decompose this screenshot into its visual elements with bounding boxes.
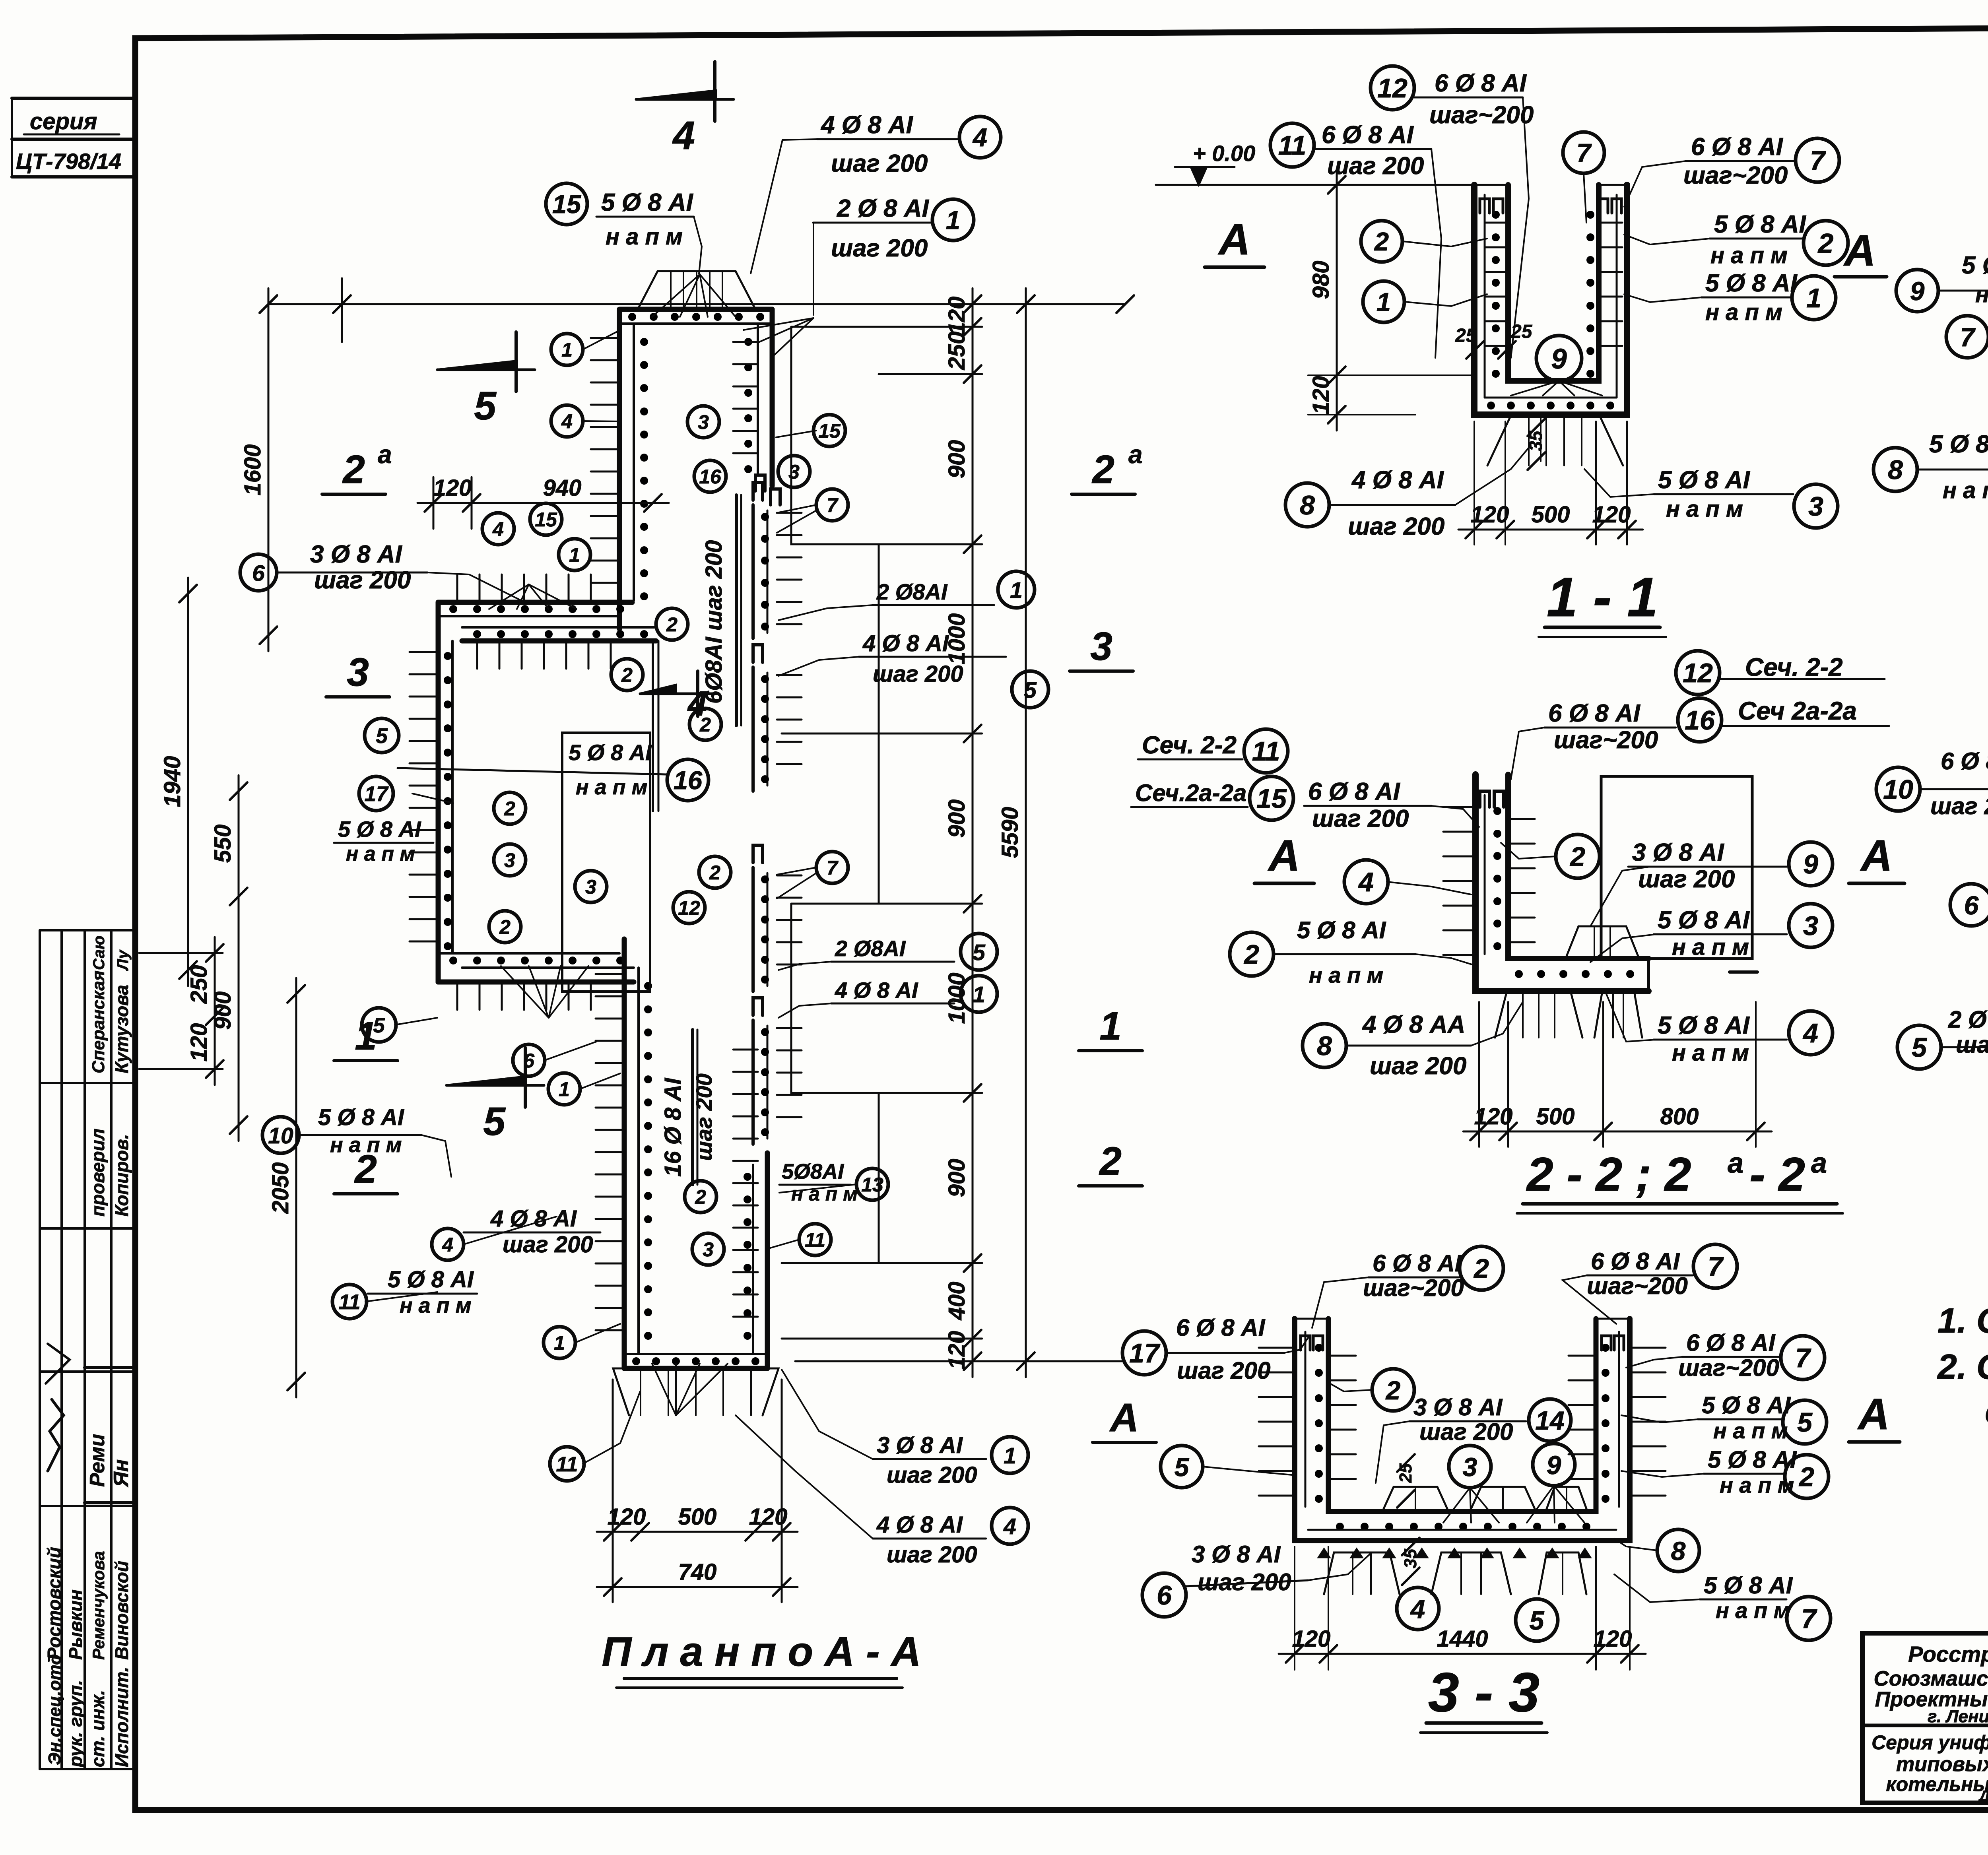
svg-text:шаг~200: шаг~200: [1363, 1275, 1464, 1301]
svg-text:4 Ø 8 АI: 4 Ø 8 АI: [820, 111, 914, 139]
svg-text:Рывкин: Рывкин: [65, 1589, 86, 1660]
svg-text:1 - 1: 1 - 1: [1547, 566, 1658, 628]
svg-text:120: 120: [1592, 502, 1631, 528]
svg-text:16: 16: [674, 766, 703, 795]
svg-text:500: 500: [1532, 502, 1570, 528]
svg-text:5 Ø 8 АI: 5 Ø 8 АI: [1962, 252, 1988, 279]
svg-text:Исполнит.: Исполнит.: [111, 1667, 132, 1767]
svg-text:7: 7: [1708, 1252, 1724, 1282]
svg-text:шаг~200: шаг~200: [1678, 1354, 1779, 1381]
svg-text:2: 2: [699, 714, 711, 736]
svg-text:11: 11: [1278, 130, 1307, 161]
svg-text:10: 10: [268, 1123, 293, 1149]
svg-text:н а п м: н а п м: [576, 775, 648, 799]
svg-text:120: 120: [1292, 1626, 1331, 1652]
svg-text:16 Ø 8 АI: 16 Ø 8 АI: [660, 1077, 686, 1177]
svg-text:шаг~200: шаг~200: [1429, 101, 1534, 129]
svg-text:9: 9: [1910, 276, 1925, 306]
svg-text:шаг 200: шаг 200: [1198, 1569, 1291, 1595]
svg-text:Сеч. 2-2: Сеч. 2-2: [1745, 653, 1843, 681]
svg-text:800: 800: [1660, 1104, 1699, 1129]
svg-text:10: 10: [1883, 774, 1913, 805]
svg-text:н а п м: н а п м: [1666, 496, 1743, 522]
svg-text:Копиров.: Копиров.: [111, 1134, 132, 1217]
svg-text:н а п м: н а п м: [346, 842, 415, 865]
svg-text:120: 120: [1474, 1104, 1513, 1129]
svg-text:5: 5: [474, 384, 497, 428]
svg-text:шаг 200: шаг 200: [503, 1232, 593, 1257]
svg-text:2: 2: [342, 447, 365, 492]
section 2-2;2a-2a: L-shaped wall and slab: [1475, 774, 1648, 991]
svg-text:шаг 200: шаг 200: [1327, 152, 1424, 180]
svg-text:400: 400: [944, 1282, 970, 1321]
svg-text:н а п м: н а п м: [1309, 962, 1383, 988]
svg-text:3 Ø 8 АI: 3 Ø 8 АI: [310, 541, 403, 568]
svg-text:6Ø8АI шаг 200: 6Ø8АI шаг 200: [701, 540, 727, 704]
svg-text:14: 14: [1535, 1406, 1564, 1435]
svg-text:1: 1: [1010, 578, 1023, 603]
svg-text:5 Ø 8 АI: 5 Ø 8 АI: [388, 1267, 474, 1292]
svg-text:шаг 200: шаг 200: [887, 1462, 977, 1488]
svg-text:5590: 5590: [997, 807, 1023, 858]
svg-text:2: 2: [1473, 1253, 1489, 1284]
svg-text:5 Ø 8 АI: 5 Ø 8 АI: [601, 189, 694, 216]
svg-text:250: 250: [186, 965, 212, 1004]
svg-text:3 Ø 8 АI: 3 Ø 8 АI: [1413, 1394, 1503, 1420]
svg-text:9: 9: [1547, 1450, 1561, 1480]
svg-text:3 Ø 8 АI: 3 Ø 8 АI: [877, 1432, 963, 1458]
svg-text:3: 3: [1463, 1452, 1477, 1482]
svg-text:7: 7: [1795, 1343, 1811, 1373]
svg-text:н а п м: н а п м: [1710, 243, 1788, 268]
svg-text:5: 5: [973, 940, 986, 965]
svg-text:11: 11: [1252, 736, 1280, 766]
svg-text:А: А: [1267, 831, 1300, 880]
svg-text:12: 12: [1683, 658, 1713, 688]
svg-text:25: 25: [1455, 325, 1477, 346]
svg-text:8: 8: [1300, 490, 1315, 520]
svg-text:н а п м: н а п м: [330, 1133, 402, 1157]
section 1-1: U-shaped foundation section: [1474, 185, 1627, 415]
svg-text:4 Ø 8 АI: 4 Ø 8 АI: [876, 1512, 963, 1538]
svg-text:5 Ø 8 АI: 5 Ø 8 АI: [1702, 1392, 1791, 1418]
svg-text:шаг 200: шаг 200: [691, 1073, 716, 1161]
svg-text:шаг~200: шаг~200: [1554, 726, 1658, 754]
svg-text:шаг 200: шаг 200: [831, 235, 928, 262]
svg-text:ЦТ-798/14: ЦТ-798/14: [16, 149, 121, 174]
svg-text:а: а: [1811, 1147, 1827, 1179]
svg-text:Росстрой СССР: Росстрой СССР: [1908, 1642, 1988, 1667]
svg-text:5: 5: [373, 1014, 385, 1037]
svg-text:7: 7: [1576, 138, 1592, 167]
svg-text:А: А: [1217, 215, 1250, 264]
svg-text:4 Ø 8 АI: 4 Ø 8 АI: [835, 978, 918, 1003]
svg-text:н а п м: н а п м: [1716, 1598, 1790, 1623]
svg-text:2: 2: [1569, 842, 1585, 872]
svg-text:2050: 2050: [268, 1162, 293, 1214]
svg-text:7: 7: [1810, 146, 1826, 176]
svg-text:шаг 200: шаг 200: [1638, 865, 1735, 893]
svg-text:котельных с котлами: котельных с котлами: [1886, 1773, 1988, 1795]
section cut marks 4 and 5: [636, 62, 734, 158]
svg-text:500: 500: [678, 1504, 717, 1530]
svg-text:1: 1: [1004, 1443, 1016, 1469]
svg-text:1: 1: [559, 1078, 570, 1100]
svg-text:6 Ø 8 АI: 6 Ø 8 АI: [1176, 1314, 1266, 1341]
svg-text:3: 3: [585, 876, 596, 898]
svg-text:120: 120: [433, 475, 472, 501]
svg-text:Сеч.2а-2а: Сеч.2а-2а: [1135, 780, 1246, 806]
svg-text:12: 12: [678, 897, 700, 919]
svg-text:7: 7: [1960, 322, 1976, 352]
svg-text:3: 3: [1090, 624, 1112, 669]
svg-text:шаг 200: шаг 200: [1419, 1418, 1513, 1445]
svg-text:2 Ø8АI: 2 Ø8АI: [835, 936, 906, 961]
svg-text:6: 6: [252, 561, 265, 586]
svg-text:8: 8: [1317, 1031, 1332, 1061]
svg-text:900: 900: [944, 440, 970, 479]
svg-text:4: 4: [492, 518, 504, 540]
svg-text:8: 8: [1888, 455, 1903, 485]
svg-text:3: 3: [347, 650, 369, 695]
svg-text:120: 120: [1471, 502, 1509, 528]
svg-text:120: 120: [1308, 376, 1334, 415]
svg-text:5: 5: [1175, 1452, 1190, 1482]
svg-text:6 Ø 8 АI: 6 Ø 8 АI: [1322, 121, 1414, 149]
svg-text:5 Ø 8 АI: 5 Ø 8 АI: [1714, 211, 1807, 238]
svg-text:серия: серия: [30, 109, 97, 134]
svg-text:550: 550: [210, 825, 236, 863]
svg-text:а: а: [1128, 440, 1143, 469]
plan view: План по А-А foundation strip walls: [619, 307, 772, 312]
svg-text:ст. инж.: ст. инж.: [87, 1690, 108, 1767]
svg-text:4: 4: [1410, 1594, 1425, 1624]
svg-text:типовых проектов: типовых проектов: [1896, 1753, 1988, 1776]
svg-text:1440: 1440: [1437, 1626, 1488, 1652]
svg-text:2 Ø 8 АI: 2 Ø 8 АI: [837, 195, 930, 222]
svg-text:шаг 200: шаг 200: [887, 1542, 977, 1568]
svg-text:шаг~200: шаг~200: [1683, 162, 1788, 189]
svg-text:шаг~200: шаг~200: [1587, 1273, 1688, 1299]
svg-text:2: 2: [1385, 1376, 1401, 1405]
svg-text:шаг 200: шаг 200: [1370, 1052, 1466, 1080]
svg-text:А: А: [1109, 1395, 1139, 1440]
svg-text:Ременчукова: Ременчукова: [89, 1551, 108, 1660]
svg-text:9: 9: [1551, 343, 1567, 375]
svg-text:3: 3: [1808, 491, 1823, 522]
svg-text:120: 120: [186, 1023, 212, 1062]
series label boxes (серия / ЦТ-798/14): [12, 97, 135, 100]
svg-text:9: 9: [1803, 849, 1818, 879]
svg-text:3: 3: [788, 461, 800, 483]
svg-text:шаг 200: шаг 200: [831, 150, 928, 177]
svg-text:2. Спецификацию арматуры: 2. Спецификацию арматуры: [1937, 1347, 1988, 1386]
svg-text:а: а: [1728, 1147, 1743, 1179]
svg-text:25: 25: [1510, 321, 1533, 342]
svg-text:6 Ø 8 АI: 6 Ø 8 АI: [1691, 133, 1784, 161]
svg-text:шаг 200: шаг 200: [1177, 1357, 1271, 1384]
svg-text:н а п м: н а п м: [1720, 1473, 1794, 1498]
svg-text:3 Ø 8 АI: 3 Ø 8 АI: [1632, 839, 1725, 866]
svg-text:12: 12: [1377, 73, 1408, 103]
svg-text:н а п м: н а п м: [400, 1294, 472, 1318]
svg-text:н а п м: н а п м: [1672, 934, 1749, 960]
svg-text:3: 3: [703, 1238, 714, 1261]
svg-text:15: 15: [535, 508, 557, 531]
svg-text:16: 16: [699, 466, 722, 488]
svg-text:7: 7: [827, 494, 839, 516]
left edge signature stamp table: [39, 930, 41, 1769]
svg-text:6 Ø 8 АI: 6 Ø 8 АI: [1308, 778, 1401, 805]
svg-text:5: 5: [1797, 1407, 1813, 1438]
svg-text:8: 8: [1671, 1536, 1686, 1566]
svg-text:740: 740: [678, 1559, 717, 1585]
svg-text:15: 15: [1256, 784, 1287, 814]
svg-text:Кутузова: Кутузова: [111, 985, 132, 1073]
svg-text:2: 2: [504, 797, 515, 820]
section 3-3: U-section 1440 wide: [1295, 1319, 1630, 1541]
svg-text:Сеч 2а-2а: Сеч 2а-2а: [1738, 697, 1857, 725]
plan left rebar labels: [240, 554, 277, 591]
svg-text:шаг 200: шаг 200: [314, 567, 411, 594]
svg-text:5 Ø 8 АI: 5 Ø 8 АI: [1658, 1012, 1750, 1039]
svg-text:7: 7: [827, 857, 839, 879]
svg-text:17: 17: [365, 782, 389, 806]
svg-text:4: 4: [972, 123, 987, 152]
svg-text:15: 15: [818, 420, 841, 442]
svg-text:рук. груп.: рук. груп.: [65, 1680, 86, 1768]
svg-text:940: 940: [543, 475, 582, 501]
svg-text:5 Ø 8 АI: 5 Ø 8 АI: [1704, 1572, 1793, 1599]
svg-text:- 2: - 2: [1749, 1148, 1805, 1201]
svg-text:1: 1: [1376, 287, 1391, 316]
svg-text:1: 1: [1806, 283, 1821, 313]
svg-text:3: 3: [1803, 911, 1818, 941]
svg-text:А: А: [1860, 831, 1892, 880]
svg-text:7: 7: [1801, 1604, 1817, 1634]
svg-text:6: 6: [523, 1050, 535, 1072]
svg-text:н а п м: н а п м: [1713, 1418, 1788, 1443]
svg-text:1: 1: [561, 339, 573, 361]
svg-text:4: 4: [1802, 1018, 1818, 1048]
svg-text:шаг 200: шаг 200: [1956, 1031, 1988, 1058]
svg-text:3 Ø 8 АI: 3 Ø 8 АI: [1192, 1541, 1281, 1568]
svg-text:2: 2: [1374, 227, 1389, 256]
svg-text:н а п м: н а п м: [1705, 299, 1782, 325]
svg-text:2: 2: [1798, 1462, 1814, 1492]
svg-text:2: 2: [1817, 228, 1834, 259]
svg-text:5: 5: [1530, 1606, 1545, 1635]
svg-text:н а п м: н а п м: [1672, 1040, 1749, 1066]
svg-text:ДКВР: ДКВР: [1978, 1788, 1988, 1805]
svg-text:2 Ø8АI: 2 Ø8АI: [876, 579, 948, 604]
svg-text:4 Ø 8 АI: 4 Ø 8 АI: [1351, 466, 1444, 494]
svg-text:900: 900: [944, 1159, 970, 1197]
svg-text:5 Ø 8 АI: 5 Ø 8 АI: [338, 817, 421, 842]
svg-text:2: 2: [1099, 1139, 1122, 1184]
svg-text:5 Ø 8 АI: 5 Ø 8 АI: [1705, 270, 1798, 297]
svg-text:6 Ø 8 АI: 6 Ø 8 АI: [1435, 70, 1527, 97]
svg-text:н а п м: н а п м: [1943, 477, 1988, 503]
svg-text:6: 6: [1964, 891, 1979, 920]
svg-text:2: 2: [709, 862, 720, 884]
svg-text:11: 11: [338, 1290, 360, 1314]
svg-text:5 Ø 8 АI: 5 Ø 8 АI: [1658, 466, 1751, 494]
svg-text:980: 980: [1308, 261, 1334, 299]
svg-text:П л а н п о А - А: П л а н п о А - А: [602, 1629, 921, 1675]
svg-text:2 - 2 ; 2: 2 - 2 ; 2: [1526, 1148, 1691, 1201]
svg-text:5: 5: [1024, 677, 1037, 703]
svg-text:17: 17: [1129, 1338, 1161, 1368]
svg-text:2: 2: [499, 916, 511, 938]
svg-text:6 Ø 8 АI: 6 Ø 8 АI: [1548, 700, 1641, 727]
svg-text:1: 1: [1099, 1004, 1122, 1048]
svg-text:4 Ø 8 АI: 4 Ø 8 АI: [862, 631, 949, 656]
svg-text:5 Ø 8 АI: 5 Ø 8 АI: [1929, 431, 1988, 458]
svg-text:1600: 1600: [240, 444, 266, 495]
svg-text:Эн.спец.отд: Эн.спец.отд: [45, 1654, 64, 1765]
svg-text:Сеч. 2-2: Сеч. 2-2: [1142, 732, 1237, 759]
svg-text:см. на листе КЖС-17.: см. на листе КЖС-17.: [1985, 1391, 1988, 1431]
svg-text:120: 120: [944, 1331, 970, 1370]
svg-text:1: 1: [946, 206, 960, 235]
svg-text:н а п м: н а п м: [1975, 281, 1988, 307]
svg-text:5 Ø 8 АI: 5 Ø 8 АI: [1708, 1446, 1797, 1473]
svg-text:Реми: Реми: [86, 1434, 109, 1487]
svg-text:Саю: Саю: [90, 935, 108, 970]
svg-text:4: 4: [442, 1234, 453, 1256]
svg-text:15: 15: [552, 190, 581, 219]
svg-text:5 Ø 8 АI: 5 Ø 8 АI: [318, 1104, 405, 1130]
svg-text:+ 0.00: + 0.00: [1193, 141, 1255, 166]
svg-text:3: 3: [504, 849, 515, 871]
svg-text:900: 900: [944, 799, 970, 838]
svg-text:5: 5: [1912, 1032, 1927, 1063]
svg-text:1: 1: [554, 1332, 565, 1354]
svg-text:шаг 200: шаг 200: [1348, 513, 1444, 540]
svg-text:н а п м: н а п м: [791, 1183, 858, 1205]
svg-text:5: 5: [376, 724, 388, 748]
svg-text:5 Ø 8 АI: 5 Ø 8 АI: [1658, 906, 1750, 934]
svg-text:16: 16: [1685, 705, 1715, 735]
svg-text:6 Ø 8 АI: 6 Ø 8 АI: [1941, 748, 1988, 774]
svg-text:120: 120: [944, 297, 970, 335]
svg-text:6 Ø 8 АI: 6 Ø 8 АI: [1591, 1248, 1680, 1275]
svg-text:г. Ленинград: г. Ленинград: [1928, 1707, 1988, 1726]
svg-text:4: 4: [672, 113, 695, 158]
svg-text:2: 2: [1091, 447, 1114, 492]
svg-text:35: 35: [1401, 1549, 1420, 1568]
svg-text:А: А: [1857, 1390, 1889, 1439]
svg-text:1. Опалубку ФО-5 см. лист 16: 1. Опалубку ФО-5 см. лист 16: [1938, 1301, 1988, 1340]
svg-text:5 Ø 8 АI: 5 Ø 8 АI: [569, 740, 652, 765]
plan dimension chains: [268, 303, 1125, 305]
svg-text:2: 2: [666, 613, 678, 636]
svg-text:2: 2: [621, 664, 633, 686]
svg-text:5Ø8АI: 5Ø8АI: [782, 1160, 844, 1184]
plan top rebar labels: [546, 183, 587, 225]
svg-text:250: 250: [944, 332, 970, 371]
svg-text:6 Ø 8 АI: 6 Ø 8 АI: [1686, 1329, 1776, 1356]
svg-text:11: 11: [805, 1229, 825, 1251]
title block (штамп): [1862, 1633, 1988, 1803]
svg-text:25: 25: [1396, 1463, 1415, 1483]
rebar position balloons (plan): [551, 334, 583, 365]
svg-text:4 Ø 8 АА: 4 Ø 8 АА: [1362, 1011, 1465, 1038]
svg-text:3: 3: [698, 411, 709, 433]
svg-text:Ян: Ян: [110, 1459, 133, 1488]
svg-text:2 Ø 8 АI: 2 Ø 8 АI: [1948, 1006, 1988, 1033]
svg-text:шаг 200: шаг 200: [1930, 793, 1988, 819]
svg-text:2: 2: [695, 1186, 706, 1208]
svg-text:5 Ø 8 АI: 5 Ø 8 АI: [1297, 917, 1386, 943]
svg-text:Сперанская: Сперанская: [89, 970, 108, 1073]
svg-text:а: а: [378, 440, 392, 469]
svg-text:500: 500: [1536, 1104, 1575, 1129]
svg-text:Виновской: Виновской: [111, 1561, 132, 1660]
svg-text:н а п м: н а п м: [606, 224, 683, 250]
svg-text:3 - 3: 3 - 3: [1428, 1661, 1540, 1723]
svg-text:Лу: Лу: [114, 949, 132, 971]
svg-text:6 Ø 8 АI: 6 Ø 8 АI: [1373, 1250, 1462, 1277]
svg-text:11: 11: [556, 1453, 578, 1476]
svg-text:1: 1: [973, 982, 985, 1007]
svg-text:Серия унифицированных: Серия унифицированных: [1872, 1731, 1988, 1754]
svg-text:4: 4: [1358, 867, 1374, 897]
svg-text:5: 5: [483, 1099, 506, 1144]
svg-text:4: 4: [561, 410, 573, 433]
svg-text:6: 6: [1157, 1580, 1172, 1611]
svg-text:120: 120: [1594, 1626, 1632, 1652]
svg-text:4 Ø 8 АI: 4 Ø 8 АI: [490, 1206, 577, 1232]
svg-text:1: 1: [569, 544, 580, 566]
svg-text:шаг 200: шаг 200: [873, 661, 963, 687]
svg-text:2: 2: [1243, 939, 1259, 970]
svg-text:Союзмашстройпроект: Союзмашстройпроект: [1874, 1667, 1988, 1690]
svg-text:13: 13: [861, 1174, 883, 1196]
svg-text:1940: 1940: [159, 756, 185, 807]
svg-text:Ростовский: Ростовский: [44, 1547, 64, 1660]
svg-text:4: 4: [1003, 1514, 1016, 1539]
svg-text:шаг 200: шаг 200: [1312, 805, 1409, 832]
svg-text:проверил: проверил: [87, 1129, 108, 1217]
